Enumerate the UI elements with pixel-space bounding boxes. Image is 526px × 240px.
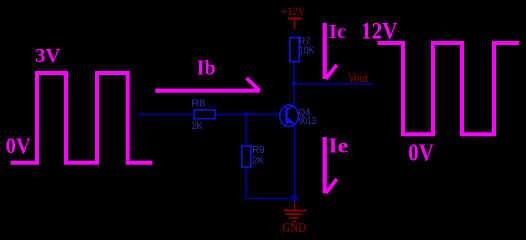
- svg-text:0V: 0V: [408, 140, 434, 166]
- svg-text:10K: 10K: [299, 46, 315, 57]
- svg-text:R8: R8: [191, 99, 205, 110]
- svg-text:3V: 3V: [35, 45, 61, 67]
- svg-text:Ie: Ie: [328, 134, 348, 158]
- svg-text:GND: GND: [282, 220, 306, 235]
- svg-text:0V: 0V: [6, 133, 31, 158]
- svg-text:12V: 12V: [361, 19, 398, 44]
- svg-text:9013: 9013: [298, 116, 316, 127]
- svg-text:Vout: Vout: [348, 70, 368, 85]
- svg-text:Ic: Ic: [329, 21, 346, 43]
- svg-text:Ib: Ib: [197, 55, 216, 79]
- svg-text:R9: R9: [252, 145, 265, 156]
- svg-text:2K: 2K: [192, 121, 203, 132]
- svg-text:+12V: +12V: [281, 4, 305, 18]
- svg-text:2K: 2K: [252, 156, 264, 167]
